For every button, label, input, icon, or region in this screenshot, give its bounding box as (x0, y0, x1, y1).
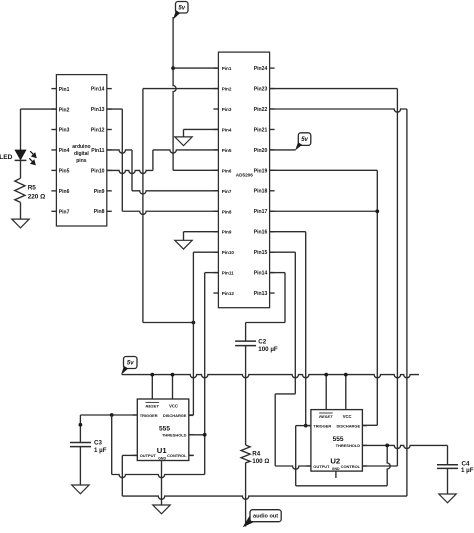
svg-text:Pin4: Pin4 (59, 148, 70, 154)
wire AD5206 Pin19 right (270, 169, 378, 171)
AD5206 Pin18 stub (270, 190, 275, 192)
wire Pin2 net horizontal (143, 322, 194, 324)
wire Pin15 vertical (294, 252, 296, 394)
svg-text:Pin13: Pin13 (91, 107, 105, 113)
5v supply label (Pin20) (298, 133, 311, 146)
arduino Pin14 stub (107, 88, 112, 90)
wire up to U1 output (121, 455, 123, 496)
AD5206 Pin11 stub (213, 272, 218, 274)
wire down to U1 discharge (192, 323, 194, 416)
svg-text:Pin14: Pin14 (254, 271, 268, 277)
svg-text:Pin18: Pin18 (254, 189, 268, 195)
wire arduino Pin10 right (107, 170, 153, 173)
wire 5v vertical to AD5206 (173, 17, 176, 170)
U2 TRIGGER stub (306, 425, 311, 427)
5v flag (top) (173, 10, 180, 19)
svg-text:Pin23: Pin23 (254, 86, 268, 92)
arduino Pin5 stub (51, 169, 56, 171)
U1 TRIGGER stub (133, 414, 138, 416)
ground at C4 (439, 494, 456, 503)
svg-text:Pin16: Pin16 (254, 230, 268, 236)
svg-text:THRESHOLD: THRESHOLD (336, 443, 361, 448)
wire trigger-threshold link U1 (112, 475, 205, 478)
svg-text:Pin2: Pin2 (59, 107, 70, 113)
wire Pin14 vertical (284, 273, 286, 323)
svg-text:Pin3: Pin3 (222, 107, 232, 112)
wire arduino Pin11 right (107, 150, 132, 153)
wire U2 CONTROL (362, 465, 397, 467)
U2 RESET label (319, 412, 333, 414)
node U1 reset/bus (150, 373, 154, 377)
svg-text:R5: R5 (28, 185, 37, 192)
wire C4 top stem (447, 445, 449, 464)
wire U1 DISCHARGE (189, 414, 194, 416)
svg-text:Pin1: Pin1 (222, 66, 232, 71)
wire AD5206 Pin4 to ground (184, 128, 219, 130)
svg-text:OUTPUT: OUTPUT (140, 453, 157, 458)
svg-text:100 Ω: 100 Ω (252, 458, 269, 465)
AD5206 Pin8 stub (213, 210, 218, 212)
AD5206 Pin17 stub (270, 210, 275, 212)
AD5206 Pin7 stub (213, 190, 218, 192)
svg-text:Pin6: Pin6 (222, 168, 232, 173)
capacitor C3 (70, 442, 91, 444)
arduino Pin4 stub (51, 149, 56, 151)
AD5206 Pin22 stub (270, 108, 275, 110)
wire AD5206 Pin11 (205, 272, 219, 274)
svg-text:CONTROL: CONTROL (341, 464, 361, 469)
svg-text:Pin19: Pin19 (254, 168, 268, 174)
wire Pin16 vertical (305, 232, 307, 426)
svg-text:VCC: VCC (343, 414, 352, 419)
svg-text:Pin11: Pin11 (222, 271, 234, 276)
wire U1 TRIGGER to C3 (80, 414, 137, 416)
svg-text:5v: 5v (178, 5, 185, 11)
svg-text:TRIGGER: TRIGGER (140, 413, 158, 418)
wire C2 top stem (245, 323, 247, 342)
U1 DISCHARGE stub (189, 414, 194, 416)
wire up to U2 threshold (387, 445, 390, 485)
ground at R5 (12, 219, 29, 228)
svg-text:audio out: audio out (253, 514, 278, 520)
U1 THRESHOLD stub (189, 434, 194, 436)
U1 CONTROL stub (189, 454, 194, 456)
resistor R5 (15, 178, 25, 202)
ground at U1 (153, 505, 170, 514)
U2 GND stub (335, 471, 337, 478)
wire C2 to R4 (245, 346, 247, 445)
svg-text:THRESHOLD: THRESHOLD (162, 433, 187, 438)
AD5206 Pin19 stub (270, 169, 275, 171)
AD5206 Pin20 stub (270, 149, 275, 151)
node U2 threshold junction (385, 444, 389, 448)
wire down to LED (20, 109, 22, 150)
node Pin17/Pin19 junction (375, 209, 379, 213)
AD5206 Pin23 stub (270, 88, 275, 90)
wire AD5206 Pin16 right (270, 231, 306, 233)
svg-text:Pin21: Pin21 (254, 127, 268, 133)
svg-text:Pin5: Pin5 (59, 169, 70, 175)
svg-text:digital: digital (74, 151, 89, 157)
wire U2 DISCHARGE (362, 424, 377, 426)
wire down to U2 output (274, 394, 276, 466)
svg-text:1 µF: 1 µF (461, 467, 474, 474)
capacitor C4 (437, 464, 458, 466)
wire trigger-threshold link U2 (296, 485, 388, 487)
AD5206 Pin5 stub (213, 149, 218, 151)
wire AD5206 Pin20 to 5v (270, 149, 296, 151)
audio out flag (243, 515, 256, 528)
svg-text:GND: GND (158, 457, 166, 461)
wire 5v bus (122, 375, 419, 378)
arduino Pin1 stub (51, 88, 56, 90)
wire U2 THRESHOLD to C4 (362, 445, 447, 448)
svg-text:Pin5: Pin5 (222, 148, 232, 153)
wire Pin19 vertical (376, 170, 378, 425)
svg-text:Pin7: Pin7 (59, 210, 70, 216)
AD5206 Pin4 stub (213, 128, 218, 130)
svg-text:Pin17: Pin17 (254, 209, 268, 215)
svg-text:CONTROL: CONTROL (167, 453, 187, 458)
AD5206 Pin10 stub (213, 251, 218, 253)
svg-text:RESET: RESET (146, 403, 160, 408)
555 timer U2 box (311, 410, 363, 472)
ground at C3 (72, 485, 89, 494)
U2 OUTPUT stub (306, 465, 311, 467)
wire to AD5206 Pin7 (132, 191, 218, 194)
svg-text:Pin9: Pin9 (94, 189, 105, 195)
svg-text:Pin4: Pin4 (222, 127, 232, 132)
svg-text:arduino: arduino (72, 144, 90, 150)
svg-text:Pin24: Pin24 (254, 66, 268, 72)
wire U2 RESET to 5v bus (325, 375, 327, 410)
node U2 vcc/bus (344, 373, 348, 377)
U1 RESET label (146, 401, 160, 403)
svg-text:5v: 5v (127, 361, 134, 367)
wire Pin23 vertical to U2 control (396, 89, 398, 466)
svg-text:Pin1: Pin1 (59, 87, 70, 93)
wire LED to R5 (20, 160, 22, 178)
svg-text:GND: GND (332, 467, 340, 471)
wire AD5206 Pin23 right (270, 88, 398, 90)
svg-text:Pin2: Pin2 (222, 87, 232, 92)
wire 5v to AD5206 Pin1 (173, 67, 218, 69)
wire Pin4 ground stem (183, 129, 185, 136)
AD5206 Pin14 stub (270, 272, 275, 274)
wire AD5206 Pin17 right (270, 210, 378, 212)
svg-text:555: 555 (159, 426, 170, 433)
node C3 stem (79, 423, 83, 427)
wire arduino Pin2 to LED (21, 108, 57, 110)
node Pin2/Pin10/U1-discharge junction (192, 321, 196, 325)
svg-text:Pin13: Pin13 (254, 291, 268, 297)
wire AD5206 Pin11 / U1 threshold vertical (204, 273, 206, 475)
svg-text:pins: pins (76, 158, 86, 164)
ground at AD5206 Pin9 (175, 240, 192, 249)
AD5206 Pin21 stub (270, 128, 275, 130)
svg-text:Pin12: Pin12 (91, 127, 105, 133)
svg-text:U2: U2 (330, 456, 340, 465)
svg-text:Pin7: Pin7 (222, 189, 232, 194)
svg-text:Pin10: Pin10 (91, 168, 105, 174)
svg-text:Pin14: Pin14 (91, 87, 105, 93)
node U2 reset/bus (324, 373, 328, 377)
wire U2 TRIGGER (296, 425, 311, 427)
AD5206 Pin6 stub (213, 169, 218, 171)
AD5206 Pin3 stub (213, 108, 218, 110)
arduino Pin2 stub (51, 108, 56, 110)
5v flag (bus) (121, 366, 128, 375)
wire U2 OUTPUT (275, 466, 311, 469)
svg-text:LED: LED (0, 154, 13, 161)
wire Pin15 jog (275, 393, 295, 395)
svg-text:555: 555 (333, 436, 344, 443)
svg-text:Pin9: Pin9 (222, 230, 232, 235)
resistor R4 (241, 445, 250, 463)
svg-text:Pin3: Pin3 (59, 128, 70, 134)
svg-text:C2: C2 (258, 339, 266, 346)
AD5206 IC block (218, 52, 269, 308)
svg-text:AD5206: AD5206 (236, 173, 254, 178)
U2 THRESHOLD stub (362, 444, 367, 446)
wire U1 GND to ground (161, 461, 163, 506)
wire AD5206 Pin14 right (270, 272, 285, 274)
arduino Pin8 stub (107, 210, 112, 212)
wire AD5206 Pin10 (193, 251, 218, 253)
svg-text:Pin22: Pin22 (254, 107, 268, 113)
svg-text:Pin11: Pin11 (91, 148, 104, 154)
svg-text:C3: C3 (94, 439, 102, 446)
wire to AD5206 Pin8 (122, 211, 218, 214)
audio out label (250, 510, 281, 522)
LED D1 (15, 150, 26, 160)
wire U1 THRESHOLD (189, 434, 205, 436)
AD5206 Pin9 stub (213, 231, 218, 233)
svg-text:Pin15: Pin15 (254, 250, 268, 256)
wire 5v to AD5206 Pin6 (173, 169, 218, 171)
arduino Pin3 stub (51, 129, 56, 131)
U2 DISCHARGE stub (362, 425, 367, 427)
wire Pin22 vertical (406, 109, 408, 496)
wire C3 to ground (79, 447, 81, 485)
wire R4 to audio out (245, 463, 247, 527)
wire AD5206 Pin9 to ground (184, 231, 219, 233)
wire arduino Pin10 vertical (152, 150, 154, 171)
AD5206 Pin12 stub (213, 292, 218, 294)
wire R5 to ground (20, 202, 22, 219)
svg-text:Pin8: Pin8 (222, 209, 232, 214)
svg-text:RESET: RESET (319, 414, 333, 419)
5v supply label (bus) (124, 357, 138, 369)
svg-text:R4: R4 (252, 450, 260, 457)
svg-text:DISCHARGE: DISCHARGE (163, 413, 187, 418)
svg-text:DISCHARGE: DISCHARGE (336, 423, 360, 428)
wire AD5206 Pin15 right (270, 251, 296, 253)
svg-text:TRIGGER: TRIGGER (313, 423, 331, 428)
svg-text:1 µF: 1 µF (94, 447, 107, 454)
wire arduino Pin13 right (107, 108, 123, 110)
node U1 trigger junction (110, 413, 114, 417)
AD5206 Pin13 stub (270, 292, 275, 294)
wire Pin14 to C2 (246, 322, 285, 324)
svg-text:U1: U1 (157, 446, 168, 455)
U1 OUTPUT stub (133, 454, 138, 456)
arduino Pin13 stub (107, 108, 112, 110)
ground at AD5206 Pin4 (175, 137, 192, 146)
svg-text:Pin6: Pin6 (59, 189, 70, 195)
arduino Pin11 stub (107, 149, 112, 151)
svg-text:Pin12: Pin12 (222, 291, 235, 296)
svg-text:Pin10: Pin10 (222, 250, 235, 255)
node Pin16/U2-trigger junction (304, 424, 308, 428)
wire to C3 (79, 415, 81, 443)
wire AD5206 Pin22 right (270, 109, 407, 112)
U1 CONTROL stub (189, 454, 194, 456)
555 timer U1 box (137, 399, 189, 461)
wire U1 OUTPUT (122, 454, 137, 456)
wire AD5206 Pin2 left (143, 88, 219, 90)
wire U2 trigger down (295, 426, 297, 486)
wire U1 VCC to 5v bus (172, 375, 174, 399)
svg-text:OUTPUT: OUTPUT (313, 464, 330, 469)
wire arduino Pin11 vertical (131, 150, 133, 191)
LED emission arrows (29, 151, 34, 162)
wire U2 VCC to 5v bus (345, 375, 347, 410)
node 5v/Pin1 junction (171, 66, 175, 70)
wire trigger-threshold link down U1 (111, 415, 113, 475)
wire to AD5206 Pin5 (153, 150, 219, 153)
wire audio-out bottom line (122, 496, 407, 499)
svg-text:Pin20: Pin20 (254, 148, 268, 154)
node U1 threshold junction (203, 433, 207, 437)
arduino Pin12 stub (107, 129, 112, 131)
wire Pin9 ground stem (183, 232, 185, 241)
svg-text:220 Ω: 220 Ω (28, 193, 46, 200)
svg-text:100 µF: 100 µF (258, 346, 278, 353)
arduino Pin9 stub (107, 190, 112, 192)
wire C4 to ground (447, 468, 449, 494)
arduino Pin7 stub (51, 210, 56, 212)
U2 CONTROL stub (362, 465, 367, 467)
wire U1 RESET to 5v bus (151, 375, 153, 399)
arduino digital pins block (56, 75, 106, 226)
wire arduino Pin13 vertical (121, 109, 123, 211)
arduino Pin6 stub (51, 190, 56, 192)
wire to AD5206 Pin10 (192, 252, 194, 322)
AD5206 Pin15 stub (270, 251, 275, 253)
svg-text:VCC: VCC (169, 403, 178, 408)
AD5206 Pin24 stub (270, 67, 275, 69)
arduino Pin10 stub (107, 169, 112, 171)
5v supply label (top) (176, 2, 189, 14)
AD5206 Pin2 stub (213, 88, 218, 90)
wire Pin2 net vertical (142, 89, 144, 323)
AD5206 Pin16 stub (270, 231, 275, 233)
AD5206 Pin1 stub (213, 67, 218, 69)
capacitor C2 (235, 340, 256, 342)
node U1 vcc/bus (171, 373, 175, 377)
5v flag (Pin20) (295, 142, 302, 150)
svg-text:5v: 5v (301, 137, 308, 143)
svg-text:Pin8: Pin8 (94, 209, 105, 215)
